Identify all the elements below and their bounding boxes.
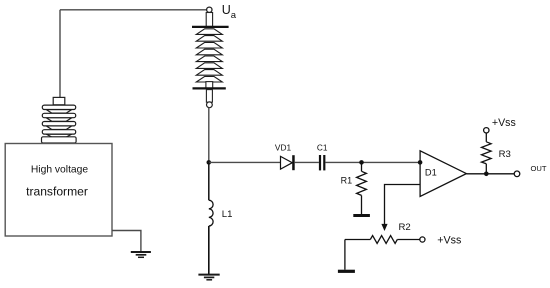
wire C1 to op-amp input [325, 161, 420, 163]
wire R2 left leg [344, 240, 346, 270]
insulator neck [206, 82, 213, 89]
junction dot (op-amp + input) [418, 160, 423, 165]
wire L1 to ground [208, 226, 210, 274]
wire node to L1 [208, 162, 210, 200]
wire diode to C1 [295, 161, 319, 163]
svg-text:a: a [231, 10, 237, 21]
insulator top rod [206, 13, 212, 27]
ground (transformer) [131, 252, 151, 257]
transformer body [5, 144, 112, 237]
terminal Ua [207, 7, 212, 12]
insulator bottom flange [193, 87, 226, 89]
svg-text:L1: L1 [222, 209, 233, 220]
wire insulator down to node [208, 108, 210, 163]
wire op-amp lower input [385, 185, 421, 225]
terminal +Vss (R2) [420, 237, 425, 242]
inductor L1 [209, 200, 213, 226]
resistor R3 [482, 133, 492, 174]
op-amp D1 [420, 151, 466, 197]
transformer bushing cap [53, 97, 65, 104]
wiper arrow (to R2) [381, 224, 387, 231]
svg-text:R1: R1 [341, 175, 353, 185]
insulator bottom rod [206, 90, 212, 103]
terminal +Vss (R3) [484, 128, 489, 133]
capacitor C1 [319, 155, 326, 170]
resistor R2 (potentiometer) [345, 236, 420, 244]
terminal OUT [514, 171, 520, 177]
insulator top flange [192, 26, 229, 28]
insulator ball end [207, 102, 213, 108]
svg-text:D1: D1 [425, 168, 437, 178]
wire top horizontal (Ua to left corner) [60, 9, 207, 11]
insulator sheds [196, 29, 222, 82]
signal ground (R1) [353, 214, 370, 217]
svg-text:+Vss: +Vss [437, 235, 461, 247]
diode VD1 [281, 155, 295, 170]
svg-text:+Vss: +Vss [492, 117, 516, 129]
svg-text:R2: R2 [399, 222, 411, 233]
svg-text:High voltage: High voltage [31, 165, 89, 176]
wire transformer to ground [112, 231, 141, 252]
junction dot (R1 tap) [359, 160, 364, 165]
wire op-amp output to OUT [466, 173, 514, 175]
transformer bushing discs [42, 105, 75, 137]
node A (junction of insulator, L1, and output chain) [207, 160, 212, 165]
junction dot (output / R3) [484, 172, 489, 177]
svg-text:OUT: OUT [531, 164, 547, 173]
resistor R1 [357, 162, 367, 214]
transformer bushing base [42, 137, 77, 143]
svg-text:VD1: VD1 [275, 142, 292, 152]
wire node to diode [209, 161, 281, 163]
wire left vertical (corner down to transformer bushing) [59, 10, 61, 98]
svg-text:C1: C1 [317, 142, 328, 152]
svg-text:R3: R3 [499, 149, 511, 160]
ground (L1) [198, 275, 219, 280]
signal ground (R2) [338, 270, 355, 273]
svg-text:transformer: transformer [26, 185, 88, 199]
svg-text:U: U [222, 3, 231, 17]
